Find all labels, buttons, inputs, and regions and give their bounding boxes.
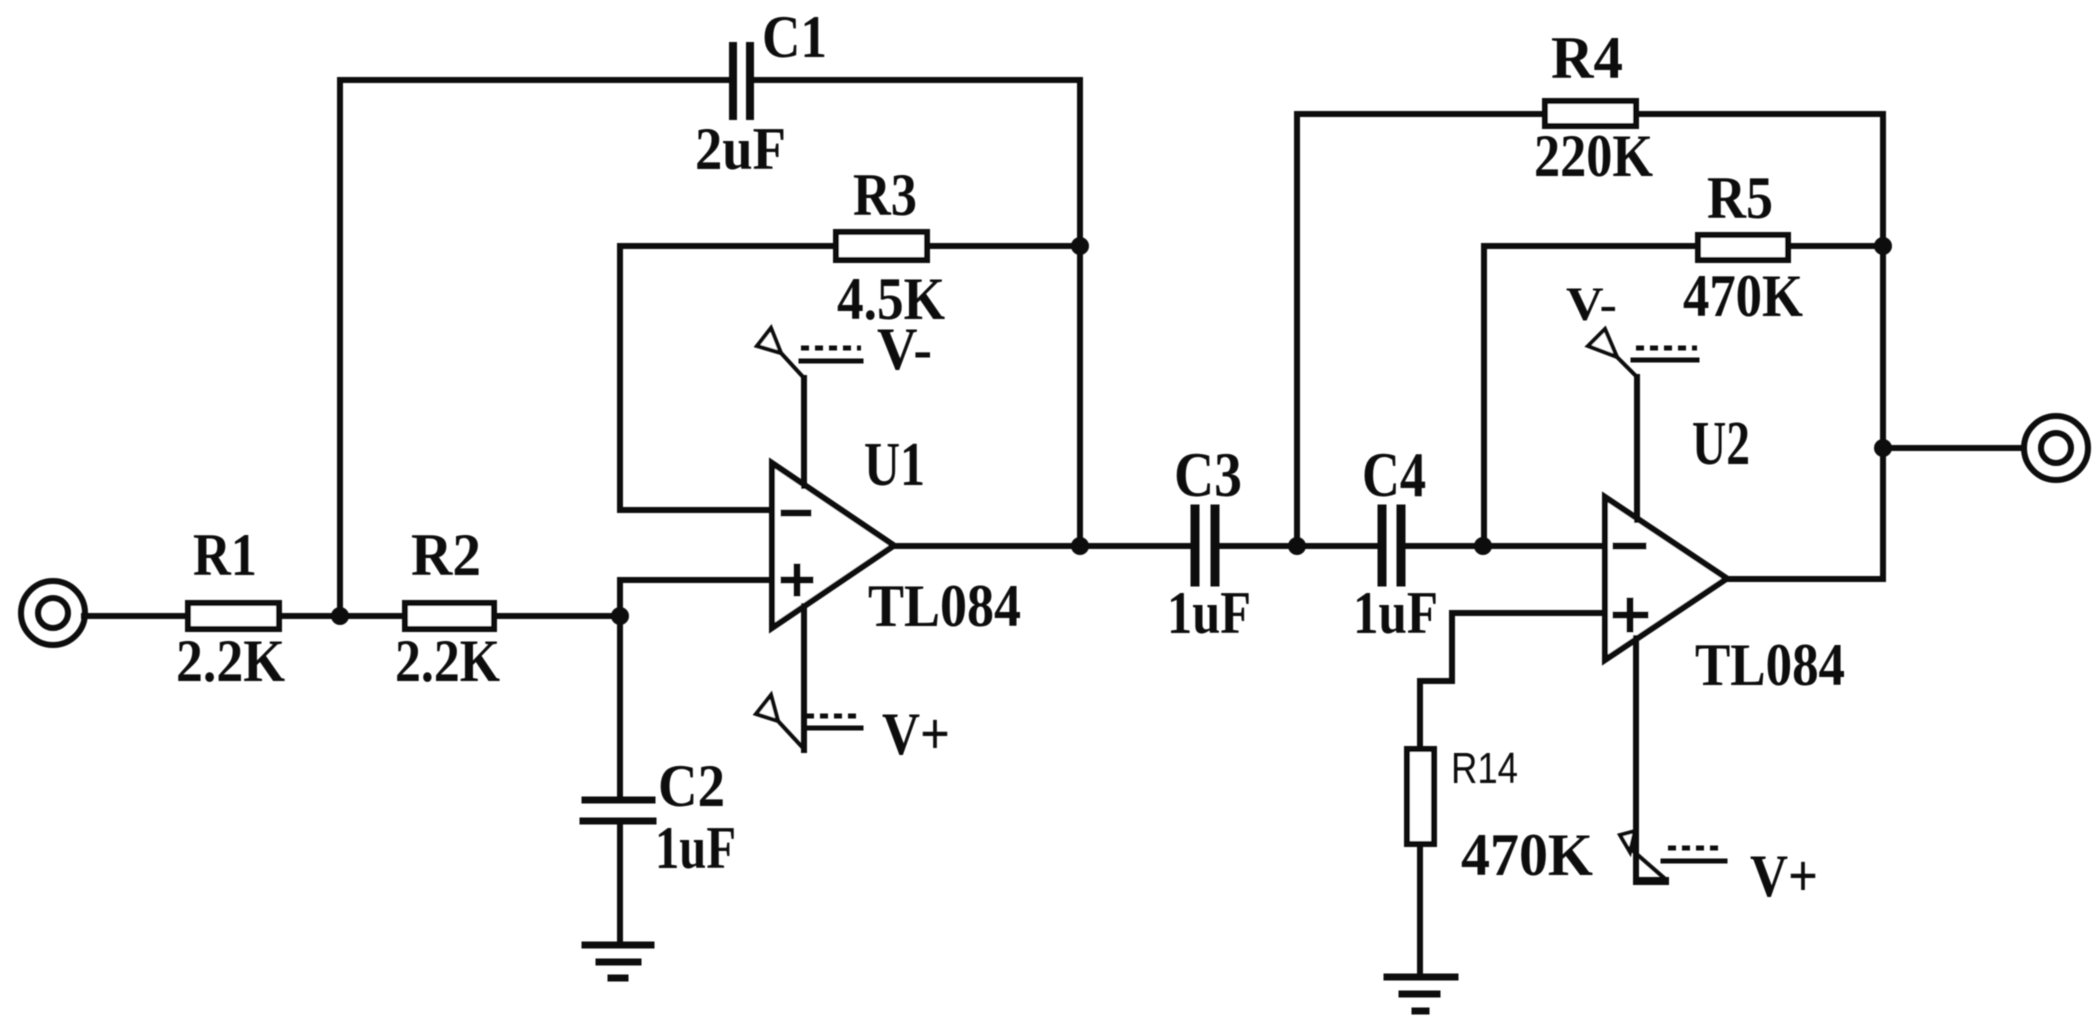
svg-text:V-: V- [1566,278,1617,331]
resistor R2 [405,603,494,629]
U1 V- power pin [757,328,861,486]
svg-text:470K: 470K [1461,822,1593,888]
output terminal J2 [2024,416,2088,480]
node A junction (R1/R2/C1 branch) [331,607,349,625]
svg-text:C1: C1 [762,4,827,70]
op-amp U1 [772,463,894,628]
svg-text:R1: R1 [193,522,257,588]
ground (R14) [1387,977,1455,1011]
input terminal J1 [21,581,85,645]
resistor R4 [1545,101,1636,126]
R3 feedback loop: left vertical [617,246,623,510]
svg-text:V-: V- [877,316,932,382]
wire: U1 output to C3 [894,543,1190,549]
capacitor C3 [1195,509,1215,582]
node: output junction on right rail [1874,439,1892,457]
wire: minus input of U1 [620,507,772,513]
wire: R4 right to right rail [1636,111,1883,117]
resistor R5 [1698,235,1788,260]
wire: node B riser to plus level [617,580,623,616]
wire: R3 to C1 drop [927,243,1080,249]
U2 V- power pin [1588,329,1697,520]
U2 V+ power pin [1620,638,1725,881]
node: R5 drop junction [1474,537,1492,555]
R4 loop: left vertical [1294,114,1300,546]
svg-text:R14: R14 [1451,744,1518,793]
U1 plus sign [784,567,810,593]
resistor R1 [188,603,279,629]
U1 V+ power pin [756,606,861,750]
svg-text:1uF: 1uF [1353,580,1438,646]
svg-text:R4: R4 [1551,25,1623,91]
wire: U2 output to right rail [1727,576,1883,582]
U2 minus sign [1616,543,1643,550]
wire: plus jog vertical [1449,613,1455,681]
wire: R5 left [1484,243,1698,249]
svg-text:R3: R3 [853,162,917,228]
op-amp U2 [1605,497,1727,660]
capacitor C4 [1382,509,1401,582]
resistor R3 [836,232,927,260]
svg-text:1uF: 1uF [655,815,736,881]
node B junction (R2/C2/+input) [611,607,629,625]
wire: loop top to R3 [620,243,836,249]
svg-text:R2: R2 [411,522,481,588]
wire: C1 right vertical drop to U1 output node [1077,80,1083,546]
wire: right rail vertical [1880,114,1886,579]
wire: R5 right to right rail [1788,243,1883,249]
U2 plus sign [1616,601,1645,629]
svg-text:TL084: TL084 [1695,632,1845,698]
svg-text:2.2K: 2.2K [176,628,285,694]
wire: C4 to U2 minus input [1406,543,1605,549]
wire: C3 to C4 [1220,543,1377,549]
R5 loop: left vertical [1481,246,1487,546]
svg-text:C4: C4 [1362,439,1426,510]
wire: top rail to C1 left plate [340,77,729,83]
ground (C2) [585,945,651,978]
wire: node A vertical up to top rail [337,80,343,616]
wire: U2 plus input [1452,610,1605,616]
svg-text:R5: R5 [1707,165,1773,231]
svg-text:220K: 220K [1534,123,1653,189]
svg-text:V+: V+ [882,701,950,767]
svg-text:TL084: TL084 [868,573,1021,639]
wire: R14 to ground [1417,844,1423,975]
svg-text:2uF: 2uF [695,116,786,182]
wire: input terminal to R1 [84,613,188,619]
svg-text:470K: 470K [1683,263,1803,329]
wire: C2 to ground [617,824,623,943]
svg-text:C2: C2 [658,753,725,819]
svg-text:2.2K: 2.2K [395,628,500,694]
node: U1 output / C1 drop junction [1071,537,1089,555]
wire: R1 to R2 [282,613,402,619]
wire: R2 to node B [497,613,622,619]
wire: plus input of U1 [620,577,772,583]
capacitor C2 [583,800,653,821]
svg-text:U2: U2 [1692,410,1750,478]
wire: plus jog horizontal [1420,678,1452,684]
wire: to output terminal [1883,445,2023,451]
U1 minus sign [784,510,808,517]
svg-text:1uF: 1uF [1167,580,1251,646]
resistor R14 [1407,749,1434,844]
capacitor C1 [733,46,750,116]
node: C3/C4 junction (R4 drop) [1288,537,1306,555]
svg-text:U1: U1 [864,431,925,499]
wire: node B down to C2 [617,616,623,797]
svg-text:V+: V+ [1750,843,1818,909]
node: R5/right rail junction [1874,237,1892,255]
wire: jog down to R14 [1417,681,1423,749]
node: R3 right / C1 drop junction [1071,237,1089,255]
wire: C1 right plate to right drop [754,77,1080,83]
svg-text:C3: C3 [1174,439,1242,510]
wire: R4 left [1297,111,1545,117]
